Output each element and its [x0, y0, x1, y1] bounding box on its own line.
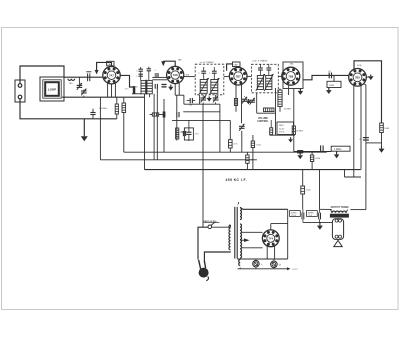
2nd IF secondary capacitor: [266, 67, 271, 69]
box with capacitor at x=188: [184, 128, 193, 140]
oscillator coil L2 primary: [141, 81, 146, 94]
bus4 y=111.8: [257, 112, 276, 114]
resistor box 750M: [333, 75, 335, 81]
filament winding for lamps: [239, 260, 241, 266]
svg-text:CONTROL: CONTROL: [257, 121, 269, 123]
tube V3 7B7 IF amplifier: [229, 67, 247, 85]
capacitor C19 tone: [363, 137, 369, 139]
ground right branch: [381, 146, 383, 149]
ground under 750M box: [328, 88, 330, 91]
svg-text:10 MEG: 10 MEG: [296, 131, 304, 133]
V3 pin wires down: [235, 85, 237, 112]
parts box REG 22-47: [277, 122, 294, 135]
tube V6 7Y4 rectifier: [262, 230, 279, 247]
padder capacitors C6 C7 left: [139, 68, 143, 70]
plate top jumper of V5: [354, 61, 382, 123]
wire switch left down to plug: [198, 227, 208, 259]
svg-text:455 KC I.F.: 455 KC I.F.: [226, 178, 247, 182]
filter ground line: [303, 221, 332, 223]
filter capacitor C23 label box: [307, 211, 318, 217]
svg-text:10 K: 10 K: [233, 144, 238, 146]
2nd IF transformer T2 dashed box: [251, 64, 278, 93]
wire B+ rail to OT left: [320, 208, 332, 210]
wire V5 grid down: [353, 86, 355, 177]
wire x=176.8 down to volume cluster: [176, 95, 178, 112]
svg-text:100M: 100M: [384, 128, 389, 130]
svg-text:7Y4: 7Y4: [268, 237, 273, 241]
trimmer C15 below V3: [239, 125, 245, 127]
resistor R6 1 MEG box: [264, 108, 275, 112]
svg-text:1 MEG: 1 MEG: [334, 148, 342, 151]
grid leak resistor R1: [116, 97, 118, 104]
wire x=275.5 volume drop: [275, 88, 277, 135]
ground under loop circuit: [83, 119, 85, 137]
wires osc to V2 grid: [152, 76, 167, 78]
wire 2nd IF secondary down: [256, 93, 258, 113]
svg-text:47 K: 47 K: [195, 133, 200, 135]
wire osc drop x=154.1: [153, 94, 155, 160]
pilot rail bottom y=268.8: [238, 268, 288, 270]
V3 grid-return pin down to trimmer: [241, 85, 243, 124]
resistor R7 small left of box: [270, 128, 273, 135]
wire 2nd IF to V4 diode: [278, 75, 282, 77]
line y=151.5 to 1 MEG box: [312, 151, 331, 153]
diode load line with resistor 10MEG: [293, 89, 295, 126]
rectifier plate wires: [242, 231, 263, 233]
loop antenna LOOP: [40, 77, 64, 101]
line y=135.2 volume bottom: [270, 134, 296, 136]
wire V1 plate to coupling bar: [120, 75, 134, 87]
capacitor C20 .005 to ground: [294, 151, 312, 153]
ground at V4 right: [299, 89, 301, 91]
svg-text:OUTPUT TRANS: OUTPUT TRANS: [331, 206, 349, 209]
oscillator coil L2 secondary: [147, 81, 152, 94]
1st IF primary capacitor: [201, 70, 206, 72]
ground arrow right of V5: [367, 76, 371, 78]
wire plate line into OT right: [350, 209, 366, 211]
speaker voice coil bottom: [335, 235, 338, 238]
rectifier filament wires down: [266, 246, 268, 259]
svg-text:7B7: 7B7: [236, 74, 241, 78]
wire V5 plate down to output transformer: [365, 85, 367, 210]
dark element on x=164: [163, 112, 166, 118]
wire grid-cap lead of V1: [97, 62, 112, 70]
svg-text:7A8: 7A8: [173, 73, 178, 77]
svg-text:7B5: 7B5: [355, 76, 360, 80]
svg-text:470M: 470M: [315, 158, 320, 160]
resistor R14 1000 ohm B+ dropper: [302, 170, 304, 186]
wire terminal-bottom ground return: [20, 99, 117, 119]
wire osc drop x=164: [163, 99, 165, 152]
speaker frame: [332, 219, 343, 240]
HV secondary main winding: [240, 224, 242, 258]
wire osc drop x=157.3: [156, 88, 158, 160]
coupling capacitor C18 series: [328, 73, 330, 79]
bus1 y=152.2 AVC line: [124, 151, 327, 153]
svg-text:22-47: 22-47: [279, 128, 285, 130]
svg-text:150 V: 150 V: [291, 215, 297, 217]
trimmer capacitor C1B: [83, 90, 85, 92]
svg-text:27Ω: 27Ω: [134, 87, 138, 89]
grid return jumper left of V3: [227, 64, 233, 71]
ground under 2nd IF trimmers: [247, 99, 249, 101]
svg-text:750M: 750M: [329, 85, 335, 87]
wire screen feed down to bus1: [123, 97, 125, 103]
grid coupling stub y=177: [345, 176, 362, 178]
1st IF transformer T1 dashed box: [195, 64, 224, 95]
bus y=120.4 under V3: [172, 119, 230, 121]
wire x=219.9 down to bus1: [219, 104, 221, 152]
wire x=294.2 to AF coupling: [293, 135, 295, 152]
svg-text:270 K: 270 K: [279, 132, 285, 134]
svg-text:2nd I.F TRANS: 2nd I.F TRANS: [252, 60, 267, 63]
resistor R3 horizontal: [150, 114, 153, 116]
AVC jumper over V2: [163, 61, 175, 66]
1st IF secondary coil: [211, 80, 218, 94]
AC plug: [199, 268, 209, 278]
wire x=203 down to power switch: [202, 104, 204, 227]
output transformer T4 primary coil: [331, 210, 332, 213]
wire plug second prong to primary bottom: [204, 252, 230, 261]
bus3 y=169.6 B+ line: [145, 169, 361, 171]
core dash oscillator transformer: [145, 80, 147, 95]
wire loop to grid of V1: [64, 76, 103, 78]
filter capacitor C22 plates: [301, 213, 303, 220]
antenna coil L1: [68, 79, 75, 81]
pilot rail top y=259: [237, 258, 288, 260]
trimmer C13 under 1st IF: [215, 95, 217, 98]
grid cap box above V3: [233, 62, 241, 67]
power transformer core: [234, 207, 236, 259]
svg-text:M04: M04: [186, 74, 190, 76]
stub right osc coil bottom: [149, 94, 151, 97]
coupling element dark bar: [133, 86, 136, 94]
pilot lamp PL2: [271, 261, 278, 268]
resistor R10 470 between buses: [246, 152, 248, 155]
tube V1 7A7 RF amplifier: [103, 67, 120, 84]
cathode pin wires of V1: [107, 83, 109, 97]
capacitor C11 under V2: [176, 112, 178, 117]
power transformer T3 primary: [229, 225, 231, 250]
capacitor C21: [320, 145, 322, 151]
output transformer core bar: [330, 214, 348, 217]
svg-text:27 h: 27 h: [125, 89, 129, 91]
wire HV top to B+ rail: [240, 208, 288, 210]
bus5 segment y=104.2 to x=183: [183, 111, 220, 113]
2nd IF primary capacitor: [258, 67, 263, 69]
ground under filter: [319, 222, 321, 225]
volume control cluster VR1: [176, 128, 179, 139]
ground arrow below parts box: [290, 137, 292, 139]
resistor R11 1500: [252, 135, 254, 141]
svg-text:CAP: CAP: [108, 63, 113, 66]
V2 pin wires down: [174, 84, 176, 96]
wire V4 plate jog: [303, 75, 349, 79]
wire V5 screen down to B+ bus: [360, 86, 362, 170]
wire x=183.9 screen drop to local bus: [183, 95, 185, 104]
trimmer C12 under 1st IF: [202, 95, 204, 98]
wire AVC return bus under loop and V1: [62, 96, 145, 98]
wire x=100.4 AVC line down to bus2: [99, 97, 101, 160]
svg-text:7B6: 7B6: [288, 74, 293, 78]
pilot lamp PL1: [253, 260, 260, 267]
speaker voice coil top: [335, 219, 338, 222]
capacitor C10 at osc bottom: [154, 84, 156, 89]
svg-text:7A7: 7A7: [109, 73, 114, 77]
HV secondary top winding: [240, 208, 242, 220]
1st IF primary coil: [200, 80, 207, 94]
svg-text:LOOP: LOOP: [48, 88, 56, 92]
trimmer C16 under 2nd IF: [242, 98, 248, 100]
wire V2 plate to 1st IF: [184, 76, 195, 78]
wire V3 plate to 2nd IF: [247, 75, 252, 77]
svg-text:CAP: CAP: [234, 64, 239, 67]
resistor R12 470M: [311, 152, 313, 156]
ground under 1 MEG: [336, 151, 338, 154]
V4 pin wires: [288, 85, 290, 95]
capacitor C14 left of 1st IF: [189, 98, 191, 103]
svg-text:REG: REG: [279, 125, 284, 127]
wire x=319.5 B+ to filter: [319, 170, 321, 210]
terminal strip TB1: [15, 80, 25, 102]
speaker cone triangle: [334, 240, 342, 246]
svg-text:VOLUME: VOLUME: [258, 118, 268, 120]
bus2 y=159.8: [100, 159, 257, 161]
svg-text:6.3 V: 6.3 V: [293, 269, 299, 271]
filter capacitor C22 label box: [290, 211, 301, 217]
trimmer C17 under 2nd IF: [249, 99, 255, 101]
2nd IF secondary coil: [266, 76, 272, 90]
svg-text:1st I.F TRANS: 1st I.F TRANS: [200, 61, 215, 64]
ground at V2 cathode: [170, 85, 172, 87]
ground between trimmers 1st IF: [208, 96, 210, 98]
heater rail vertical x=287.7: [287, 209, 289, 259]
1st IF secondary capacitor: [212, 70, 217, 72]
svg-text:10 MEG: 10 MEG: [284, 108, 292, 110]
trimmer capacitor C1A: [78, 77, 80, 85]
wire switch to transformer primary: [212, 226, 231, 228]
power switch SW1: [208, 225, 212, 229]
shield box around V4: [283, 62, 303, 89]
resistor R2 screen dropper: [122, 103, 126, 113]
rectifier cathode wire up: [270, 224, 272, 230]
capacitor C1 series: [87, 73, 89, 81]
local bus under 1st IF: [184, 103, 220, 105]
resistor R4 10K: [229, 120, 231, 139]
resistor R5 diode load tall: [279, 89, 281, 91]
capacitor at V2 cathode: [162, 84, 167, 86]
ground under C20: [299, 153, 301, 155]
padder capacitors C8 C9 right: [147, 68, 151, 70]
wire 1st IF secondary to V3 grid: [224, 76, 230, 78]
2nd IF primary coil: [257, 76, 263, 90]
grid cap box above V1: [107, 61, 114, 66]
capacitor C2 on return line: [90, 112, 95, 114]
resistor R9 on right branch: [380, 123, 384, 133]
wire osc coil bottom drop x=144.5: [144, 94, 146, 170]
cathode resistor on V3 pin: [234, 99, 237, 106]
resistor R13 1 MEG box: [331, 146, 350, 151]
wire terminal-top to loop top: [20, 66, 64, 84]
6.3V heater arrow: [287, 267, 291, 270]
filter capacitor C23 plates: [318, 213, 320, 220]
wire osc coil tops: [140, 71, 142, 80]
svg-text:A 7A: A 7A: [357, 64, 362, 67]
chassis arrow at center tap: [240, 239, 244, 241]
